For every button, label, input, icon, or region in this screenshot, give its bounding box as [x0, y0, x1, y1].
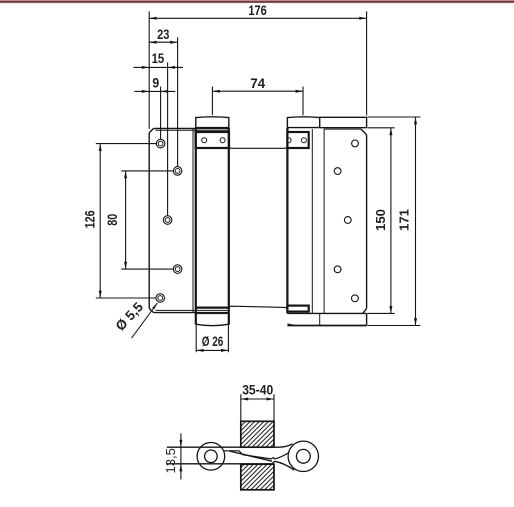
centre panel top edge: [229, 145, 288, 148]
dimension D26 line: [196, 349, 228, 351]
dimension 13.5 line: [180, 433, 182, 479]
lower leaf strap bottom edge: [167, 461, 274, 464]
dimension 35-40 line: [241, 398, 274, 400]
dimension 35-40 extension left: [240, 394, 242, 421]
centre panel bottom edge: [229, 306, 288, 309]
left plate bottom edge (inner): [156, 309, 229, 311]
dimension 171 extension top: [367, 116, 420, 118]
left plate hole C: [163, 216, 172, 225]
dimension 15 extension right, down to hole C: [167, 62, 169, 215]
right plate bottom flange chamfer: [287, 324, 295, 326]
dimension 23 line: [149, 41, 177, 43]
right knuckle outer circle: [288, 441, 318, 471]
svg-text:23: 23: [157, 26, 169, 42]
dimension 171 line: [415, 117, 417, 326]
left plate top chamfer: [149, 128, 153, 132]
dimension 80 line: [125, 171, 127, 269]
right plate hole B: [334, 168, 341, 175]
right plate bottom right chamfer: [363, 309, 367, 314]
left knuckle inner circle: [205, 450, 218, 463]
right knuckle inner circle: [296, 449, 310, 463]
dimension 23 extension right, down to hole B: [177, 37, 179, 166]
svg-text:Ø 5,5: Ø 5,5: [113, 299, 147, 334]
left plate hole D: [173, 265, 182, 274]
left cylinder top strap: [196, 132, 229, 148]
left strap hole 2: [220, 138, 225, 143]
right plate hole C: [344, 217, 351, 224]
dimension 171 extension bottom: [367, 325, 420, 327]
door section lower block (hatched): [241, 464, 274, 490]
left plate bottom chamfer: [149, 308, 153, 312]
dimension D5.5 leader: [132, 303, 158, 338]
right strap hole 2: [301, 138, 306, 143]
right plate bottom flange bottom edge: [287, 325, 366, 327]
dimension D26 extension right: [227, 325, 229, 352]
upper leaf strap bottom diagonal: [229, 451, 272, 461]
right strap hole 1 (half): [289, 138, 292, 143]
right plate right edge: [366, 135, 368, 309]
dimension 15 line with outside arrows: [134, 66, 184, 68]
svg-text:150: 150: [373, 209, 388, 231]
door section upper block (hatched): [241, 421, 274, 447]
dimension 126 extension bottom to hole E: [96, 297, 156, 299]
right cylinder cap: [287, 117, 319, 128]
left cylinder body sides: [195, 128, 197, 325]
svg-text:80: 80: [104, 214, 120, 226]
svg-text:9: 9: [152, 74, 159, 90]
right plate top inner edge: [324, 128, 361, 130]
svg-text:126: 126: [82, 210, 98, 228]
svg-text:15: 15: [152, 50, 165, 66]
right cylinder left side: [286, 128, 288, 314]
left plate top edge (inner): [156, 129, 229, 131]
dimension 150 extension top: [367, 127, 394, 129]
dimension 74 extension right: [302, 87, 304, 116]
dimension 150 line: [390, 128, 392, 314]
left collar bottom curve: [196, 324, 229, 326]
dimension 176 extension right: [366, 11, 368, 115]
right plate bottom flange right edge: [366, 313, 368, 325]
left cylinder cap: [196, 117, 229, 128]
dimension 80 extension top to hole B: [121, 170, 173, 172]
dimension 150 extension bottom: [367, 312, 394, 314]
dimension 74 extension left: [211, 87, 213, 116]
dimension 176 extension left: [148, 11, 150, 129]
right plate top flange right edge: [366, 117, 368, 128]
right cylinder inner line 2 (bend): [323, 129, 325, 313]
svg-text:Ø 26: Ø 26: [202, 333, 224, 349]
left plate hole E: [156, 294, 165, 303]
right plate hole D: [334, 266, 341, 273]
dimension 80 extension bottom to hole D: [121, 268, 173, 270]
svg-text:74: 74: [250, 75, 265, 91]
left collar top line: [196, 313, 229, 315]
dimension D26 extension left: [195, 325, 197, 352]
right cylinder bottom strap: [287, 306, 308, 312]
red header rule: [0, 0, 514, 3]
left plate hole A: [156, 139, 165, 148]
right plate bottom edge / flange top: [287, 312, 366, 314]
upper leaf notch line: [224, 451, 243, 455]
svg-text:13,5: 13,5: [163, 448, 178, 473]
dimension 9 extension, down to hole A: [160, 87, 162, 140]
right plate top right chamfer: [361, 129, 367, 135]
dimension 9 line with outside arrows: [135, 90, 176, 92]
left knuckle outer circle: [197, 443, 225, 471]
left plate left edge: [148, 133, 150, 309]
right plate bottom flange divider: [319, 313, 321, 325]
svg-text:35-40: 35-40: [242, 382, 273, 398]
dimension 35-40 extension right: [273, 394, 275, 421]
right leaf bottom flare: [274, 461, 294, 470]
dimension 176 line: [149, 17, 366, 19]
left plate bend line: [192, 128, 194, 312]
svg-text:176: 176: [248, 2, 267, 18]
dimension 126 line: [99, 144, 101, 298]
dimension 126 extension top to hole A: [96, 143, 157, 145]
svg-text:171: 171: [397, 209, 412, 231]
left plate top edge (outer): [154, 127, 229, 129]
right plate hole A: [352, 140, 359, 147]
right cylinder top strap: [287, 132, 308, 148]
right cylinder inner line 1: [311, 129, 313, 313]
upper leaf strap top edge: [167, 444, 293, 447]
lower leaf strap top diagonal: [242, 455, 274, 459]
left strap hole 1: [202, 138, 207, 143]
left plate bottom edge (outer): [154, 312, 229, 314]
right plate hole E: [352, 295, 359, 302]
right plate top flange top edge: [319, 116, 367, 118]
left plate hole B: [173, 167, 182, 176]
right plate top flange bottom edge: [320, 127, 367, 129]
right leaf upper neck curve: [275, 452, 290, 459]
left cylinder barrel bottom: [196, 307, 229, 309]
dimension 74 line: [212, 90, 303, 92]
